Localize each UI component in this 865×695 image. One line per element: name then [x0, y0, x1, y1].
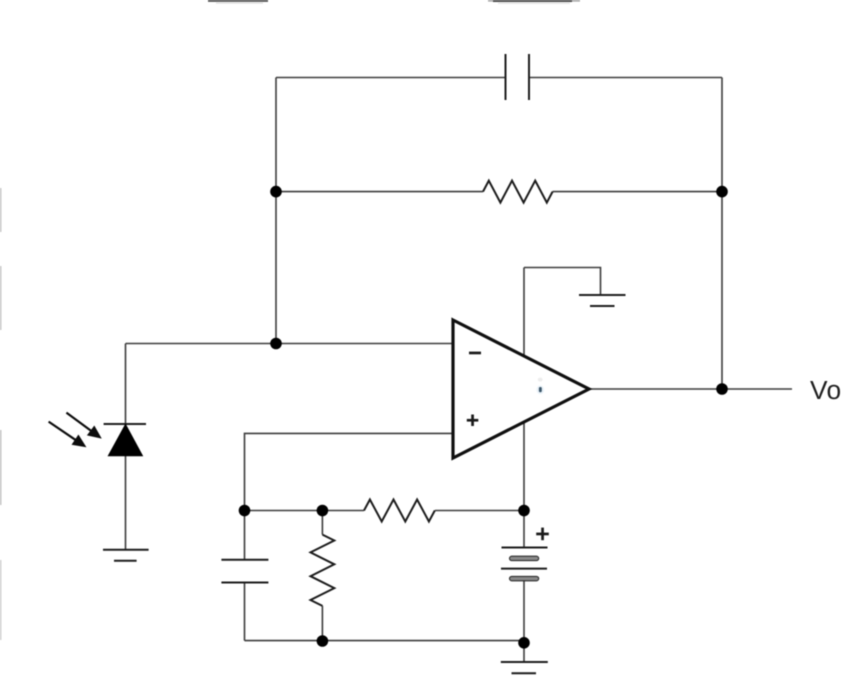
svg-text:Vo: Vo — [810, 375, 842, 405]
